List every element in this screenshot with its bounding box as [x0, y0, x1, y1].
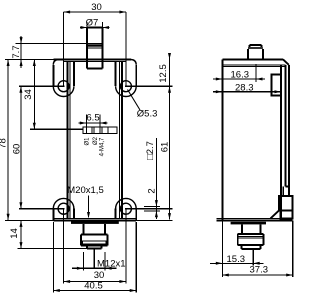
dim 37.3 right extension [292, 220, 294, 277]
body right inner chamfer line [118, 62, 120, 219]
gland block left [80, 235, 82, 246]
top-right ear inner edge [115, 62, 117, 87]
bottom hole center extension right [125, 208, 173, 210]
dim 78 top arrow [7, 60, 10, 67]
side bottom lower line [216, 219, 292, 221]
svg-text:34: 34 [23, 89, 34, 100]
dim 30 top: dim line [64, 11, 126, 13]
dim 40.5 right extension [135, 222, 137, 293]
svg-text:Ø2: Ø2 [93, 136, 99, 145]
side plunger cap right [260, 45, 262, 47]
svg-text:4-M4,7: 4-M4,7 [99, 137, 105, 156]
gland tip left [86, 245, 88, 248]
side strip bottom tick [286, 186, 289, 188]
Dia5.3 leader line [128, 90, 141, 111]
gland block top [81, 234, 108, 236]
M12 leader line [93, 249, 95, 269]
terminal square 2 right edge [99, 127, 101, 134]
side plunger left side [247, 49, 249, 60]
dim 6.5 left arrow [80, 122, 87, 125]
svg-text:6.5: 6.5 [86, 113, 99, 124]
dim 28.3 left arrow [216, 90, 223, 93]
left extension line at plate top (78/34/7.7 dims) [5, 59, 53, 61]
side gland tip bottom [242, 248, 261, 250]
side bottom chamfer line [271, 210, 280, 218]
head plate top edge [53, 59, 131, 61]
bottom plate upper line [53, 217, 136, 219]
bottom-left mounting hole [58, 203, 69, 214]
svg-text:40.5: 40.5 [84, 281, 103, 292]
dim 37.3 left arrow [222, 274, 229, 277]
bottom-right mounting hole [120, 203, 131, 214]
bottom-left ear outer edge [52, 209, 54, 221]
hole center extension right [125, 85, 173, 87]
dim 6.5 right extension [99, 115, 101, 128]
svg-text:7.7: 7.7 [11, 45, 22, 58]
top-left ear lobe arc [53, 86, 74, 96]
dim 2 top extension [144, 206, 160, 208]
dim 30 bottom right extension [125, 209, 127, 284]
side bottom block [279, 196, 293, 210]
dim 34 top arrow [33, 60, 36, 67]
dim 30 bottom left extension [63, 209, 65, 284]
dim 15.3 left arrow [216, 262, 223, 265]
dim 60 bottom arrow [19, 202, 22, 209]
dim 40.5 left extension [52, 222, 54, 293]
body right outer edge [121, 62, 123, 219]
dim 15.3 extension at gland center [252, 249, 254, 265]
plunger collar band [86, 44, 103, 46]
dim 30 bottom right arrow [119, 280, 126, 283]
side gland block right [263, 234, 265, 245]
M20 leader arrowhead [87, 212, 90, 219]
Dia7 left extension [86, 22, 88, 28]
dim 6.5 dim line [79, 122, 108, 124]
dim 37.3 right arrow [286, 274, 293, 277]
dim 30 top: right extension [125, 12, 127, 86]
dim 16.3 left arrow [216, 78, 223, 81]
dim 2 bottom extension [144, 210, 160, 212]
side gland neck right [259, 224, 261, 234]
dim 12.5/61 middle arrow [168, 86, 171, 93]
body left outer edge [67, 62, 69, 219]
dim 7.7 lower arrow [20, 60, 23, 67]
dim 28.3 dim line [213, 91, 281, 93]
dim M12 dim line [72, 267, 117, 269]
dim 40.5 left arrow [53, 289, 60, 292]
plunger top face [87, 27, 103, 29]
dim M12 right arrow [105, 267, 112, 270]
top-left ear outer edge [52, 65, 54, 86]
dim 16.3 right arrow [256, 78, 263, 81]
bottom-left ear inner edge [73, 209, 75, 219]
dim 30 bottom dim line [64, 281, 126, 283]
Dia7 left arrow [81, 26, 88, 29]
dim 60 dim line [20, 86, 22, 209]
plunger left side [86, 28, 88, 69]
dim M12 right extension [104, 252, 106, 271]
dim 14 bottom extension line [17, 248, 87, 250]
svg-text:30: 30 [91, 2, 102, 13]
bottom-right ear outer edge [135, 209, 137, 221]
side bottom sub-block [281, 210, 293, 218]
svg-text:2: 2 [147, 188, 158, 193]
Dia7 dim line right tail [103, 27, 110, 29]
dim 15.3 dim line [210, 262, 264, 264]
svg-text:16.3: 16.3 [231, 70, 250, 81]
Dia7 right extension [102, 22, 104, 28]
dim 30 top right arrow [119, 11, 126, 14]
svg-text:61: 61 [160, 142, 171, 153]
dim 2 bottom arrow [155, 211, 158, 218]
dim 30 bottom left arrow [64, 280, 71, 283]
terminal square 3 left edge [101, 127, 103, 134]
dim 7.7 top extension line [15, 43, 101, 45]
side gland inner line 2 [238, 237, 264, 239]
svg-text:Ø7: Ø7 [86, 18, 99, 29]
dim 34 dim line [33, 60, 35, 130]
terminal strip outline [83, 127, 117, 134]
svg-text:14: 14 [9, 228, 20, 239]
svg-text:37.3: 37.3 [250, 265, 269, 276]
dim 6.5 right arrow [100, 122, 107, 125]
side gland tip right [260, 245, 262, 249]
dim 40.5 right arrow [130, 289, 137, 292]
dim 14 top arrow [20, 220, 23, 227]
plunger right side [102, 28, 104, 69]
bottom plate lower line [53, 219, 136, 221]
side bottom upper line [216, 217, 292, 219]
Dia7 right arrow [103, 26, 110, 29]
bottom-right ear inner edge [115, 209, 117, 219]
side gland block left [237, 234, 239, 245]
side gland flange [231, 222, 266, 225]
dim 16.3 dim line [213, 78, 265, 80]
dim 14 bottom arrow [20, 242, 23, 249]
dim 7.7 upper arrow [20, 37, 23, 44]
terminal square 1 left edge [85, 127, 87, 134]
body left inner chamfer line [69, 62, 71, 219]
svg-text:60: 60 [12, 144, 23, 155]
side plunger cap top [250, 44, 262, 46]
gland flange plate [71, 221, 119, 224]
dim 30 top left arrow [64, 11, 71, 14]
dim 60 bottom extension [19, 208, 65, 210]
side head plate third line [222, 66, 285, 68]
dim M12 left arrow [77, 267, 84, 270]
terminal square 1 right edge [91, 127, 93, 134]
M20 leader arrow line [88, 196, 90, 218]
dim 7.7 dim line [20, 36, 22, 68]
dim 15.3 right arrow [253, 262, 260, 265]
side plunger right side [262, 49, 264, 60]
svg-text:30: 30 [94, 270, 105, 281]
bottom-left ear lobe arc [53, 198, 74, 208]
side gland neck left [241, 224, 243, 234]
side body left edge [221, 59, 223, 220]
svg-text:Ø1: Ø1 [84, 137, 90, 146]
plunger collar lower line [86, 47, 103, 49]
side gland inner line 1 [238, 235, 264, 237]
side strip inner line [285, 65, 287, 187]
gland tip right [100, 245, 102, 248]
side head plate second line [222, 64, 285, 66]
Dia7 dim line left tail [80, 27, 87, 29]
dim 78 bottom arrow [7, 214, 10, 221]
svg-text:□2.7: □2.7 [145, 141, 156, 160]
top-left mounting hole Dia5.3 [58, 81, 69, 92]
gland block right [106, 235, 108, 246]
dim 78 dim line [7, 60, 9, 221]
side head plate chamfer [283, 59, 289, 65]
dim 34 bottom arrow [33, 123, 36, 130]
svg-text:78: 78 [0, 138, 9, 149]
side body left edge bottom dim extension [221, 220, 223, 277]
side head plate top edge [222, 58, 283, 60]
plunger sleeve bottom inside body [87, 68, 103, 70]
svg-text:M20x1,5: M20x1,5 [67, 185, 103, 196]
side plunger band [248, 47, 263, 49]
dim 6.5 left extension [85, 115, 87, 128]
gland tip bottom [87, 248, 102, 250]
dim 12.5 top arrow [168, 53, 171, 60]
svg-text:12.5: 12.5 [158, 64, 169, 83]
dim 16.3 extension at plunger center [255, 64, 257, 82]
dim 2 top arrow [155, 200, 158, 207]
dim 30 top: left extension [63, 12, 65, 86]
side body right edge [280, 65, 282, 221]
gland block groove [83, 241, 106, 244]
right extension line at bottom plate (61 dim) [136, 219, 172, 221]
dim 14 dim line [20, 220, 22, 248]
side top block [272, 75, 282, 96]
head plate top-right corner arc [131, 60, 136, 65]
dim 12.5/61 dim line [169, 53, 171, 220]
bottom-right ear lobe arc [116, 198, 137, 208]
top-right mounting hole Dia5.3 [120, 81, 131, 92]
side strip step line [282, 187, 284, 197]
top-left ear inner edge [73, 62, 75, 87]
head plate second line [64, 61, 126, 63]
terminal square 2 left edge [93, 127, 95, 134]
dim M12 left extension [82, 252, 84, 271]
side gland block bottom [238, 244, 264, 246]
top-right ear lobe arc [116, 86, 137, 96]
dim 61 bottom arrow [168, 213, 171, 220]
side gland block top [238, 233, 264, 235]
svg-text:28.3: 28.3 [235, 83, 254, 94]
gland block bottom [81, 244, 108, 246]
dim 60 top arrow [19, 86, 22, 93]
gland neck left [82, 224, 84, 235]
dim 40.5 dim line [53, 290, 136, 292]
top-right ear outer edge [135, 65, 137, 86]
dim box2.7/2 dim line [155, 138, 157, 219]
side strip outer line [288, 65, 290, 196]
dim 37.3 dim line [222, 274, 292, 276]
svg-text:15.3: 15.3 [227, 254, 246, 265]
side plunger cap left [249, 45, 251, 47]
dim 60 top extension [19, 85, 65, 87]
head plate top-left corner arc [53, 60, 58, 65]
dim 34 bottom extension [30, 128, 83, 130]
left extension line at bottom plate (78 dim) [5, 219, 53, 221]
svg-text:Ø5.3: Ø5.3 [137, 109, 158, 120]
dim 28.3 right arrow [275, 90, 282, 93]
side gland tip left [241, 245, 243, 249]
gland neck right [104, 224, 106, 235]
terminal square 3 right edge [107, 127, 109, 134]
